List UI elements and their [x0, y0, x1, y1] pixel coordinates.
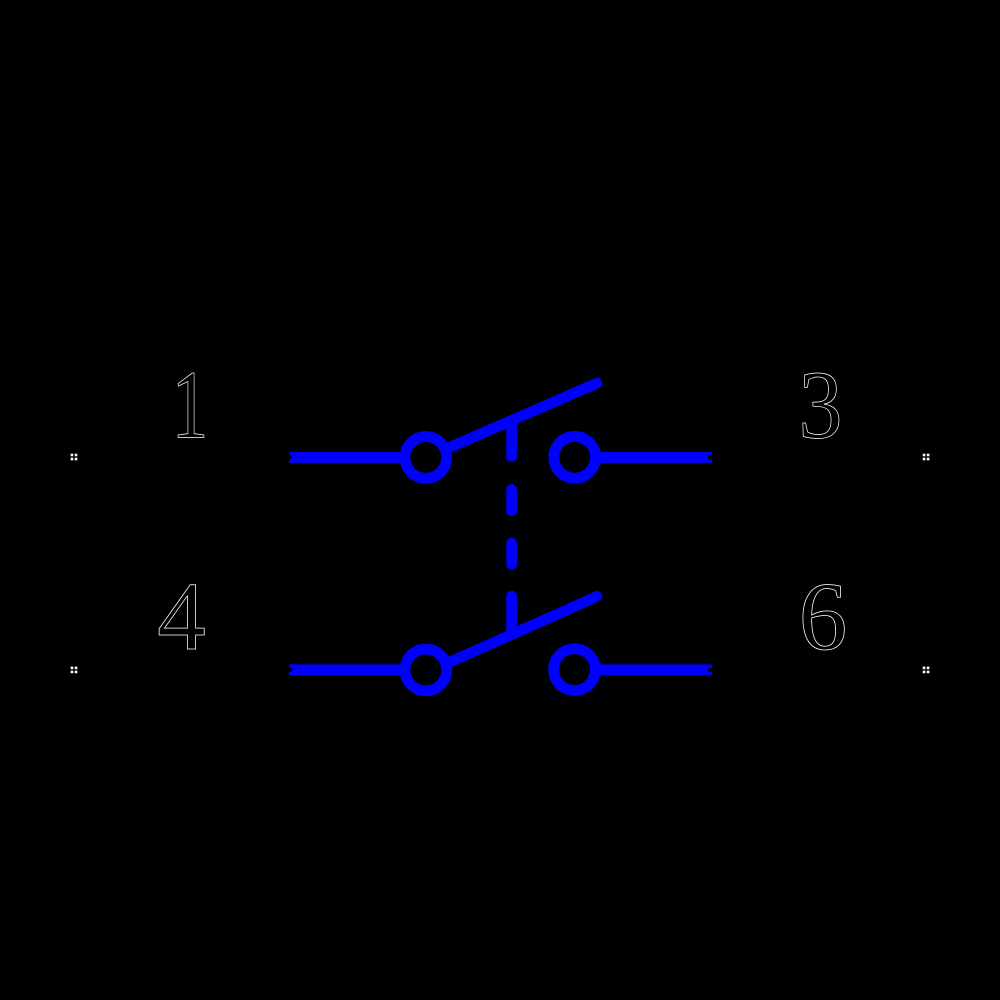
gang link dash 3 — [506, 543, 517, 564]
wire pin4 to switch contact (bottom-left) — [289, 664, 402, 675]
svg-text:1: 1 — [172, 350, 209, 458]
pin-end hole at pin3 wire tip — [708, 455, 712, 459]
contact circle A2 (bottom pole, left) — [405, 649, 447, 691]
svg-text:4: 4 — [157, 563, 206, 670]
gang link dash 2 — [506, 490, 517, 511]
svg-text:3: 3 — [799, 351, 843, 458]
wire switch contact to pin3 (top-right) — [600, 452, 712, 463]
switch lever SW1 (top pole) — [448, 383, 598, 448]
contact circle A1 (top pole, left) — [405, 437, 447, 479]
gang link dash 4 (merges into bottom lever) — [506, 596, 517, 634]
pin pad marker at pin 3 (four white dots) — [923, 454, 930, 461]
wire switch contact to pin6 (bottom-right) — [600, 664, 712, 675]
pin pad marker at pin 6 (four white dots) — [923, 667, 930, 674]
wire pin1 to switch contact (top-left) — [289, 452, 402, 463]
switch lever SW2 (bottom pole) — [449, 596, 598, 662]
contact circle B2 (bottom pole, right) — [554, 649, 596, 691]
pin pad marker at pin 4 (four white dots) — [71, 667, 78, 674]
pin pad marker at pin 1 (four white dots) — [71, 454, 78, 461]
pin-end hole at pin1 wire tip — [288, 455, 292, 459]
svg-text:6: 6 — [799, 563, 848, 670]
pin-end hole at pin6 wire tip — [708, 668, 712, 672]
gang link bar segment 1 (top, solid below lever) — [506, 420, 517, 456]
contact circle B1 (top pole, right) — [554, 436, 596, 478]
pin-end hole at pin4 wire tip — [288, 668, 292, 672]
